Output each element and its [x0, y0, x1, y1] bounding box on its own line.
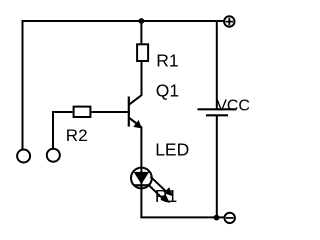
wire emitter to LED to bottom: [140, 127, 142, 218]
wire collector: [141, 62, 143, 96]
svg-text:VCC: VCC: [216, 97, 250, 114]
wire base: [92, 111, 128, 113]
wire left rail: [22, 20, 24, 149]
svg-text:R1: R1: [155, 186, 177, 206]
LED arrow 1: [151, 177, 173, 196]
minus terminal: [225, 213, 235, 223]
wire right rail upper: [216, 21, 218, 108]
terminal T2: [47, 149, 60, 162]
terminal T1: [17, 150, 30, 163]
svg-text:R2: R2: [66, 126, 88, 145]
junction top: [139, 18, 145, 24]
wire R1 top: [140, 21, 142, 43]
LED D1: [131, 168, 152, 189]
svg-text:LED: LED: [155, 140, 189, 160]
wire base riser: [53, 112, 73, 148]
transistor Q1: [129, 95, 142, 128]
LED arrow 2: [148, 184, 169, 202]
svg-text:Q1: Q1: [156, 80, 179, 100]
junction bottom: [214, 215, 220, 221]
wire right rail lower: [216, 115, 218, 217]
resistor R2: [74, 107, 91, 117]
svg-text:R1: R1: [156, 51, 178, 71]
wire bottom rail: [140, 216, 224, 218]
battery B1 plate -: [206, 114, 228, 116]
wire top rail: [23, 20, 224, 22]
battery B1 plate +: [198, 108, 237, 110]
plus terminal: [224, 16, 234, 26]
resistor R1: [137, 44, 148, 61]
